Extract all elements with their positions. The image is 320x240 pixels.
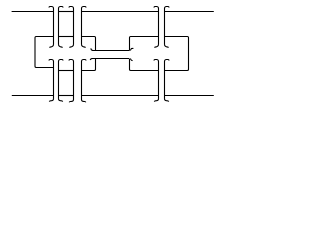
wire CL1 to CL2 top leads (59, 11, 74, 13)
coupled line pair CL7 line B bottom hook (165, 99, 169, 102)
coupled line pair CL2 line B top hook (82, 7, 87, 9)
coupled line pair CL5 line A bottom hook (69, 100, 73, 103)
wire CL1 to CL2 bottom leads (59, 36, 74, 38)
wire CL1 bottom lead down-left link to CL4 upper lead (35, 37, 54, 68)
coupled line pair CL6 line 1 right tip (130, 48, 133, 50)
wire CL3 top lead to port2 (165, 11, 214, 13)
coupled line pair CL3 line B bottom hook (165, 44, 169, 47)
wire CL4 to CL5 lower leads (59, 95, 74, 97)
coupled line pair CL1 line A bottom hook (49, 44, 53, 47)
coupled line pair CL1 line B body (58, 8, 60, 44)
wire CL6 line2 left lead down to CL5 upper lead (82, 59, 96, 71)
coupled line pair CL5 line B body (81, 61, 83, 99)
coupled line pair CL2 line B bottom hook (82, 44, 86, 47)
wire port1 to CL1 top lead (12, 11, 54, 13)
coupled line pair CL4 line B body (58, 61, 60, 99)
coupled line pair CL1 line A top hook (49, 7, 54, 9)
coupled line pair CL7 line B top hook (165, 60, 170, 62)
wire CL2 bottom lead down to CL6 line1 left lead (82, 37, 96, 51)
coupled line pair CL1 line B top hook (59, 7, 64, 9)
coupled line pair CL6 line 1 left tip (91, 48, 93, 50)
coupled line pair CL6 line 2 body (92, 58, 129, 60)
wire CL2 to CL3 top leads (82, 11, 159, 13)
coupled line pair CL7 line A bottom hook (154, 99, 158, 102)
wire CL3 bottom lead down-right link to CL7 upper lead (165, 37, 189, 71)
coupled line pair CL2 line A bottom hook (69, 44, 73, 47)
coupled line pair CL3 line A bottom hook (154, 44, 158, 47)
wire port3 to CL4 lower lead (12, 95, 54, 97)
coupled line pair CL4 line B top hook (59, 60, 64, 62)
coupled line pair CL5 line A body (73, 61, 75, 99)
coupled line pair CL3 line A top hook (154, 7, 159, 9)
coupled line pair CL7 line B body (164, 61, 166, 99)
wire CL6 line1 right end up to CL3 bottom lead (130, 37, 159, 51)
coupled line pair CL1 line B bottom hook (59, 44, 63, 47)
coupled line pair CL5 line B top hook (82, 60, 87, 62)
wire CL7 lower lead to port4 (165, 95, 214, 97)
wire CL4 to CL5 upper leads (59, 70, 74, 72)
wire CL6 line2 right end down to CL7 upper lead (130, 59, 159, 71)
coupled line pair CL5 line B bottom hook (82, 100, 86, 103)
coupled line pair CL2 line A top hook (69, 7, 74, 9)
coupled line pair CL6 line 2 left tip (90, 59, 92, 61)
coupled line pair CL4 line A top hook (49, 60, 54, 62)
coupled line pair CL2 line A body (73, 8, 75, 44)
coupled line pair CL2 line B body (81, 8, 83, 44)
coupled line pair CL5 line A top hook (69, 60, 74, 62)
wire CL5 to CL7 lower leads (82, 95, 159, 97)
coupled line pair CL3 line A body (158, 8, 160, 44)
coupled line pair CL4 line A body (53, 61, 55, 99)
coupled line pair CL3 line B top hook (165, 7, 170, 9)
coupled line pair CL6 line 1 body (92, 50, 129, 52)
coupled line pair CL7 line A body (158, 61, 160, 99)
coupled line pair CL6 line 2 right tip (130, 59, 133, 61)
coupled line pair CL4 line B bottom hook (59, 99, 63, 102)
coupled line pair CL1 line A body (53, 8, 55, 44)
coupled line pair CL7 line A top hook (154, 60, 159, 62)
coupled line pair CL4 line A bottom hook (49, 99, 53, 102)
coupled line pair CL3 line B body (164, 8, 166, 44)
